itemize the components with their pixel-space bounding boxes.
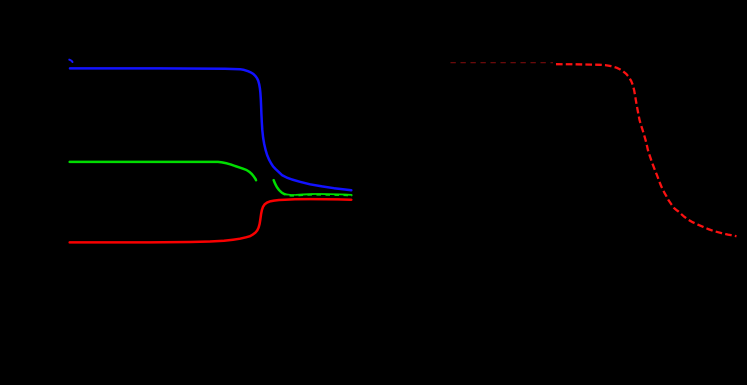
green curve right segment (left panel) (274, 180, 352, 195)
black dashed overlay texture on green right segment (285, 194, 351, 197)
dark red dashed flat segment (right panel, covered portion) (451, 62, 554, 64)
blue curve start hook (left panel) (69, 60, 72, 62)
bright red dashed curve (right panel) (556, 64, 737, 236)
red curve (left panel) (70, 199, 352, 242)
green curve left segment (left panel) (70, 162, 256, 180)
blue curve (left panel) (70, 68, 351, 190)
